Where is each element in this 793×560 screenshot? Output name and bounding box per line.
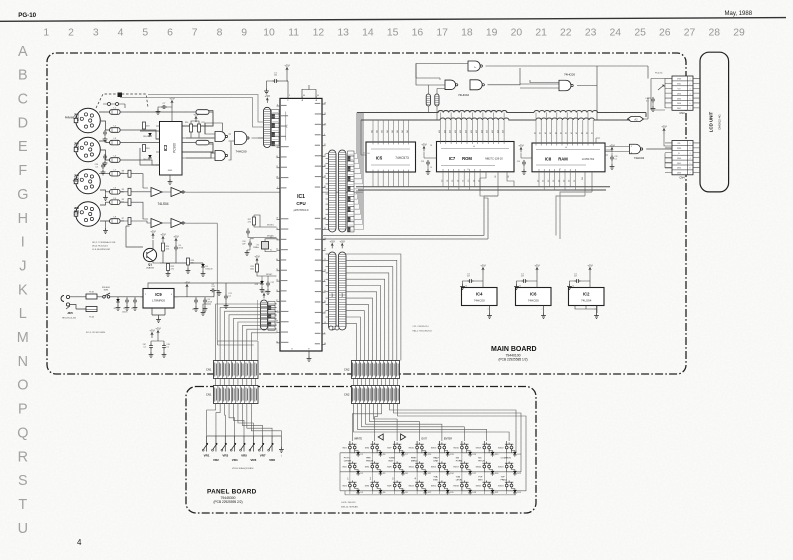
wire L4 to IC3 xyxy=(120,160,159,165)
svg-text:MIDI: MIDI xyxy=(74,146,79,148)
svg-text:12: 12 xyxy=(313,28,325,39)
svg-text:A10: A10 xyxy=(491,130,494,133)
svg-text:39: 39 xyxy=(324,301,326,303)
svg-text:R8: R8 xyxy=(122,171,124,173)
wire column 3 vertical xyxy=(417,441,422,453)
IC7 top pin drops xyxy=(441,113,505,142)
ground CN1 area xyxy=(203,304,211,310)
potentiometer VR2 xyxy=(215,436,217,452)
connector CN1 main side xyxy=(214,361,259,379)
switch SW23 xyxy=(505,465,508,468)
capacitor bypass IC2 xyxy=(575,279,581,283)
svg-text:220: 220 xyxy=(121,221,124,223)
svg-text:28: 28 xyxy=(324,217,326,219)
wires top gate network xyxy=(416,64,648,89)
capacitor C20 under JK2 xyxy=(101,163,105,169)
svg-text:4.7k: 4.7k xyxy=(171,269,174,271)
svg-text:C2: C2 xyxy=(131,308,133,310)
svg-text:74HC00: 74HC00 xyxy=(528,298,539,302)
+5V RAM right xyxy=(611,147,613,152)
svg-text:GND: GND xyxy=(168,170,173,172)
svg-text:SW24: SW24 xyxy=(498,486,504,488)
potentiometer VR5 xyxy=(243,436,245,452)
diode D8 xyxy=(401,471,405,474)
resistor R8 220 xyxy=(128,170,131,177)
svg-text:SW14: SW14 xyxy=(431,467,437,469)
wire harness group2 to CN2 xyxy=(346,254,401,361)
svg-text:15: 15 xyxy=(387,28,399,39)
diode D6 xyxy=(201,264,205,267)
svg-text:29: 29 xyxy=(324,249,326,251)
gate 74HC02 Gc xyxy=(470,80,482,90)
svg-text:WRITE: WRITE xyxy=(354,438,362,441)
grid row letters A-U xyxy=(17,44,29,537)
svg-text:D20: D20 xyxy=(495,473,498,475)
crystal X1 12MHz xyxy=(262,242,269,250)
svg-text:O3: O3 xyxy=(457,180,459,182)
wire column 5 vertical xyxy=(462,441,467,453)
svg-text:C17: C17 xyxy=(574,276,577,278)
svg-text:D1: D1 xyxy=(361,454,363,456)
svg-text:1: 1 xyxy=(145,294,146,296)
diode D15 xyxy=(446,490,450,493)
svg-text:0.1: 0.1 xyxy=(228,296,231,298)
resistor R7 220 xyxy=(128,218,131,225)
page header rule xyxy=(0,18,786,22)
resistor R19 100k xyxy=(256,264,259,272)
svg-text:PC: PC xyxy=(287,124,289,127)
svg-text:A7: A7 xyxy=(539,132,542,134)
connector JK2 MIDI IN xyxy=(76,137,101,162)
svg-text:SW10: SW10 xyxy=(408,448,414,450)
svg-text:3: 3 xyxy=(93,28,99,39)
wire column 4 vertical xyxy=(440,441,445,453)
connector CN3 xyxy=(672,76,693,110)
wire switch column 6 row 2 xyxy=(484,487,492,491)
svg-text:D8: D8 xyxy=(405,473,407,475)
panel board outline xyxy=(186,387,536,514)
diode D4 xyxy=(379,452,383,455)
diode D20 xyxy=(491,471,495,474)
wire column 6 vertical xyxy=(484,441,489,453)
svg-text:CH/SW: CH/SW xyxy=(344,460,352,462)
svg-text:HEC0470-01-630: HEC0470-01-630 xyxy=(62,317,76,319)
svg-text:D22: D22 xyxy=(517,454,520,456)
svg-text:C: C xyxy=(18,92,28,108)
capacitor C3 xyxy=(194,298,198,304)
svg-text:+5V: +5V xyxy=(518,143,523,147)
wire switch column 3 row 1 xyxy=(417,468,425,472)
wire address trunk B xyxy=(361,119,440,121)
wires CPU to strip group1 xyxy=(326,154,329,230)
svg-text:+5V: +5V xyxy=(284,63,289,67)
ground IC3 xyxy=(168,179,173,184)
connector JK3 MIDI OUT xyxy=(76,202,101,227)
capacitor C2 xyxy=(133,298,137,304)
capacitor C21 elec xyxy=(224,294,228,300)
svg-text:1A3: 1A3 xyxy=(391,130,394,133)
LCD unit outline xyxy=(700,52,729,192)
latch IC5 74HC573 xyxy=(366,142,416,172)
resistor R15 xyxy=(435,94,439,106)
svg-text:12MHz: 12MHz xyxy=(253,247,259,249)
+5V output rail xyxy=(174,291,214,297)
svg-text:8: 8 xyxy=(217,28,223,39)
svg-text:A7: A7 xyxy=(549,132,552,134)
svg-text:1: 1 xyxy=(43,28,49,39)
svg-text:2SA933: 2SA933 xyxy=(146,267,155,270)
svg-text:8: 8 xyxy=(324,280,325,282)
svg-text:+5V: +5V xyxy=(587,263,592,267)
svg-text:F: F xyxy=(18,163,27,179)
svg-text:VO: VO xyxy=(678,89,681,91)
svg-text:CN4: CN4 xyxy=(679,175,685,179)
svg-text:AVSS: AVSS xyxy=(315,96,318,101)
switch SW1 xyxy=(349,446,352,449)
svg-text:1A3: 1A3 xyxy=(381,130,384,133)
diode D21 xyxy=(491,490,495,493)
svg-text:A7: A7 xyxy=(580,132,583,134)
bus strip pin boxes group1 xyxy=(348,151,355,156)
svg-text:47: 47 xyxy=(324,291,326,293)
inductor L8 xyxy=(110,219,121,224)
svg-text:A7: A7 xyxy=(534,132,537,134)
svg-text:ENV: ENV xyxy=(478,479,483,481)
svg-text:25: 25 xyxy=(276,249,278,251)
inverter T2 xyxy=(171,188,182,197)
resistor R14 xyxy=(426,94,430,106)
circles P23 P24 xyxy=(329,326,333,330)
svg-text:EDIT: EDIT xyxy=(389,460,395,462)
capacitor jack bypass xyxy=(103,154,107,160)
svg-text:+5V: +5V xyxy=(480,263,485,267)
switch SW7 xyxy=(393,446,396,449)
diode D5 xyxy=(379,471,383,474)
svg-text:VR2: VR2 xyxy=(213,458,219,462)
svg-text:6: 6 xyxy=(690,168,691,170)
svg-text:1SS-133: 1SS-133 xyxy=(143,159,150,161)
svg-text:19: 19 xyxy=(324,155,326,157)
svg-text:A: A xyxy=(18,44,28,60)
diode D13 xyxy=(446,452,450,455)
capacitor C8 47/16 xyxy=(203,298,207,304)
svg-text:DM0922-4G: DM0922-4G xyxy=(718,114,722,129)
svg-text:4: 4 xyxy=(324,134,325,136)
svg-text:PITCH: PITCH xyxy=(478,460,485,462)
svg-text:+5V: +5V xyxy=(193,112,198,116)
resistor R17 xyxy=(253,217,256,225)
svg-text:26: 26 xyxy=(659,28,671,39)
svg-text:D24: D24 xyxy=(517,492,520,494)
+5V IC4 xyxy=(482,268,484,274)
svg-text:5: 5 xyxy=(142,28,148,39)
svg-text:RA1-5: RGLD8X253J: RA1-5: RGLD8X253J xyxy=(413,329,432,332)
svg-text:220: 220 xyxy=(121,173,124,175)
svg-text:46: 46 xyxy=(324,343,326,345)
svg-text:+5V: +5V xyxy=(339,239,344,243)
wire MIDI OUT drive (gray long) xyxy=(186,222,218,224)
svg-text:7: 7 xyxy=(690,173,691,175)
svg-text:+5V: +5V xyxy=(173,234,178,238)
svg-text:PC900: PC900 xyxy=(173,143,177,153)
logic IC4 74HC00 xyxy=(462,288,498,306)
svg-text:+5V: +5V xyxy=(261,289,266,293)
svg-text:74HC00: 74HC00 xyxy=(474,298,485,302)
svg-text:37: 37 xyxy=(308,349,310,351)
svg-text:D13: D13 xyxy=(450,454,453,456)
svg-text:74LS04: 74LS04 xyxy=(581,298,592,302)
wire switch column 0 row 0 xyxy=(350,449,358,453)
wire thru chain xyxy=(120,174,186,192)
svg-text:OUT: OUT xyxy=(74,214,79,216)
svg-text:JK1: JK1 xyxy=(74,112,80,116)
+5V arrow out xyxy=(186,285,188,291)
wire MIDI THRU drive (gray long) xyxy=(186,191,364,193)
switch SW4 xyxy=(371,446,374,449)
gate 74HC00 Gd xyxy=(559,80,571,91)
capacitor C25 xyxy=(273,79,279,83)
inductor L6 xyxy=(110,190,121,195)
IC5 inner pin ticks xyxy=(373,142,409,144)
diode D10 xyxy=(424,452,428,455)
svg-text:1: 1 xyxy=(690,79,691,81)
svg-text:VR7: VR7 xyxy=(260,454,266,458)
svg-text:O3: O3 xyxy=(479,180,481,182)
svg-text:PANEL BOARD: PANEL BOARD xyxy=(207,489,257,496)
capacitor C49 xyxy=(162,344,166,350)
diode D12 xyxy=(424,490,428,493)
label left-arrow xyxy=(378,434,383,440)
svg-text:EXIT: EXIT xyxy=(422,438,428,441)
svg-text:L78MR05: L78MR05 xyxy=(152,299,165,303)
svg-text:LCD UNIT: LCD UNIT xyxy=(709,111,714,132)
svg-text:A10: A10 xyxy=(475,130,478,133)
svg-text:29: 29 xyxy=(733,28,745,39)
svg-text:B: B xyxy=(18,68,28,84)
wire JK1 pins to L1 L2 xyxy=(99,112,110,130)
svg-text:+5V: +5V xyxy=(150,229,155,233)
IC7 inner pin ticks xyxy=(441,142,505,145)
svg-text:29: 29 xyxy=(324,102,326,104)
diode D24 xyxy=(513,490,517,493)
svg-text:D2: D2 xyxy=(574,180,576,182)
svg-text:MODE1: MODE1 xyxy=(267,225,274,227)
svg-text:0.1: 0.1 xyxy=(614,159,616,161)
inductor L3 xyxy=(110,140,121,145)
svg-text:A10: A10 xyxy=(470,130,473,133)
potentiometer VR1 xyxy=(206,436,208,452)
svg-text:4.7k: 4.7k xyxy=(166,249,169,251)
svg-text:+5V: +5V xyxy=(149,328,154,332)
wire IC5 latch enable xyxy=(361,120,366,155)
+5V CN4 xyxy=(663,129,665,135)
svg-text:IC4: IC4 xyxy=(476,291,483,296)
svg-text:+5V: +5V xyxy=(254,254,259,258)
switch SW16 xyxy=(461,446,464,449)
svg-text:IC1: IC1 xyxy=(297,194,305,200)
svg-text:4: 4 xyxy=(690,93,691,95)
svg-text:MENU: MENU xyxy=(411,460,418,462)
wire switch column 1 row 2 xyxy=(372,487,380,491)
svg-text:18: 18 xyxy=(276,218,278,220)
svg-text:SW12: SW12 xyxy=(408,486,414,488)
svg-text:40: 40 xyxy=(276,259,278,261)
svg-text:CN2: CN2 xyxy=(344,368,350,372)
capacitor C9 xyxy=(246,229,250,235)
svg-text:4: 4 xyxy=(118,28,124,39)
ground IC4 xyxy=(489,306,491,314)
svg-text:RESET: RESET xyxy=(266,274,273,276)
svg-text:X2: X2 xyxy=(270,237,272,239)
svg-text:VR5: VR5 xyxy=(241,454,247,458)
+5V cluster C44 C45 xyxy=(151,333,153,339)
svg-text:7: 7 xyxy=(542,309,543,311)
svg-text:D2: D2 xyxy=(553,180,555,182)
ground IC2 xyxy=(596,306,598,314)
switch SW13 xyxy=(438,446,441,449)
connector CN2 panel side xyxy=(352,386,400,404)
svg-text:6: 6 xyxy=(690,103,691,105)
+5V IC2 xyxy=(589,268,591,274)
svg-text:5: 5 xyxy=(690,163,691,165)
wire switch column 7 row 0 xyxy=(507,449,515,453)
svg-text:C22: CX0285-214: C22: CX0285-214 xyxy=(413,326,430,328)
wire switch column 4 row 0 xyxy=(440,449,448,453)
wire L1 to input pill xyxy=(120,111,196,113)
svg-text:D6: D6 xyxy=(383,492,385,494)
svg-text:D14: D14 xyxy=(450,473,453,475)
wires CPU to strip group2 xyxy=(326,254,329,323)
svg-text:THRU: THRU xyxy=(73,181,80,183)
wire address trunk A xyxy=(357,110,512,112)
svg-text:C13: C13 xyxy=(421,161,424,163)
logic IC6 74HC00 xyxy=(516,288,552,306)
switch SW12 xyxy=(416,484,419,487)
svg-text:M: M xyxy=(17,330,29,346)
wire vertical x217 xyxy=(217,223,258,341)
svg-text:R16: R16 xyxy=(185,122,188,124)
svg-text:VR3: VR3 xyxy=(222,454,228,458)
svg-text:D17: D17 xyxy=(473,473,476,475)
svg-text:SW1-24: SKHCBB: SW1-24: SKHCBB xyxy=(341,506,358,508)
svg-text:VSS: VSS xyxy=(677,79,682,81)
IC5 top pin drops xyxy=(373,120,409,142)
inductor L7 xyxy=(110,171,121,176)
svg-text:D18: D18 xyxy=(473,492,476,494)
IC8 WE CS pins xyxy=(585,138,600,196)
inverter T4 xyxy=(171,219,182,228)
ground rail under input xyxy=(86,309,97,312)
wire switch column 0 row 2 xyxy=(350,487,358,491)
wire data bus fan lower xyxy=(354,190,364,229)
svg-text:14: 14 xyxy=(519,286,521,288)
svg-text:LC3517AS: LC3517AS xyxy=(582,157,595,161)
svg-text:SW17: SW17 xyxy=(453,467,459,469)
svg-text:6: 6 xyxy=(167,28,173,39)
svg-text:D11: D11 xyxy=(428,473,431,475)
main board outline xyxy=(47,53,686,374)
svg-text:+5V: +5V xyxy=(155,326,160,330)
potentiometer VR8 xyxy=(271,436,273,452)
svg-text:34: 34 xyxy=(276,341,278,343)
inductor L5 xyxy=(110,200,121,205)
svg-text:+5V: +5V xyxy=(661,124,666,128)
svg-text:1A3: 1A3 xyxy=(396,130,399,133)
svg-text:IN: IN xyxy=(77,120,80,122)
+5V Q1 xyxy=(152,234,154,240)
connector JK5 DC jack xyxy=(61,296,64,302)
svg-text:0.1: 0.1 xyxy=(96,166,99,168)
svg-text:74LS04: 74LS04 xyxy=(158,202,169,206)
wire gate feedback loop xyxy=(205,123,258,160)
+5V pills xyxy=(331,243,333,248)
svg-text:SW23: SW23 xyxy=(498,467,504,469)
svg-text:D19: D19 xyxy=(495,454,498,456)
svg-text:47/16: 47/16 xyxy=(207,302,212,304)
inductor L4 xyxy=(110,158,121,163)
svg-text:16: 16 xyxy=(324,123,326,125)
svg-text:P: P xyxy=(18,402,28,418)
svg-text:26: 26 xyxy=(276,269,278,271)
svg-text:G: G xyxy=(17,187,28,203)
diode D4 xyxy=(148,133,152,136)
bus strip pills AD0-AD7 / A8-A15 xyxy=(329,150,337,232)
grid column numbers 1-29 xyxy=(43,28,745,39)
svg-text:+5V: +5V xyxy=(265,94,270,98)
svg-text:A10: A10 xyxy=(454,130,457,133)
svg-text:A10: A10 xyxy=(459,130,462,133)
connector JK1 PARAMETER IN xyxy=(76,108,101,133)
svg-text:O3: O3 xyxy=(473,180,475,182)
svg-text:74HC573: 74HC573 xyxy=(395,156,409,160)
svg-text:14: 14 xyxy=(276,228,278,230)
wire RAM WE to bus pair xyxy=(556,192,592,239)
svg-text:19: 19 xyxy=(276,290,278,292)
svg-text:O3: O3 xyxy=(463,180,465,182)
svg-text:7: 7 xyxy=(192,28,198,39)
wire switch column 6 row 0 xyxy=(484,449,492,453)
svg-text:CN2: CN2 xyxy=(344,393,350,397)
wire switch column 5 row 0 xyxy=(462,449,470,453)
+5V RA5 xyxy=(263,293,265,298)
resistor R11 xyxy=(198,124,201,132)
capacitor C1 xyxy=(125,298,129,304)
svg-text:D2: D2 xyxy=(564,180,566,182)
+5V sub rail with C47 C49 xyxy=(157,331,159,337)
svg-text:Q: Q xyxy=(17,425,28,441)
gate 74HC00 G2 xyxy=(215,151,225,161)
wire switch column 2 row 0 xyxy=(395,449,403,453)
ground VR rail xyxy=(280,441,282,447)
svg-text:A10: A10 xyxy=(480,130,483,133)
svg-text:0.1: 0.1 xyxy=(144,347,147,349)
bracket PC label xyxy=(285,112,287,141)
op-amp IC3 PC900 optocoupler xyxy=(160,122,183,176)
wire extra CN1 feeds xyxy=(217,341,258,361)
svg-text:SW20: SW20 xyxy=(476,467,482,469)
svg-text:VR1-8: EVA-HQX15B54: VR1-8: EVA-HQX15B54 xyxy=(232,467,254,470)
svg-text:1A3: 1A3 xyxy=(386,130,389,133)
svg-text:D5: D5 xyxy=(383,473,385,475)
svg-text:SDDM-41: SDDM-41 xyxy=(102,287,110,289)
svg-text:22: 22 xyxy=(560,28,572,39)
svg-text:R9: R9 xyxy=(122,189,124,191)
svg-text:19: 19 xyxy=(486,28,498,39)
IC8 bottom pin drops xyxy=(539,172,575,190)
diode D14 xyxy=(446,471,450,474)
svg-text:R5: R5 xyxy=(122,199,124,201)
svg-text:8: 8 xyxy=(277,104,278,106)
